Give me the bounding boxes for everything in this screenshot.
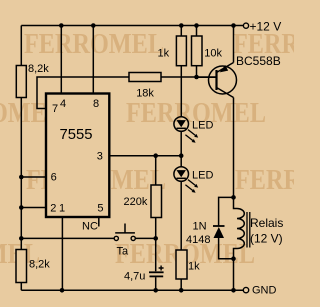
wire pin3 node down to 220k (155, 156, 157, 185)
watermark row2 (0, 97, 266, 129)
wire Ta node to capacitor and ground (155, 238, 157, 290)
svg-text:1N: 1N (193, 221, 207, 233)
transistor Q1 BC558B (197, 63, 237, 98)
wire pin7 to 18k (37, 77, 129, 109)
junction dot Ta node (153, 236, 158, 241)
svg-text:4,7u: 4,7u (124, 271, 145, 283)
wire pin3 output (110, 155, 181, 157)
wire Ta to 220k node (135, 237, 155, 239)
relay K1 coil (234, 197, 284, 290)
pushbutton Ta (114, 224, 135, 258)
junction dots bottom rail (60, 288, 236, 293)
svg-text:NC: NC (82, 221, 98, 233)
wire pin5 NC stub (98, 218, 100, 227)
resistor R6 1k lower (176, 250, 200, 279)
svg-text:2: 2 (50, 203, 56, 215)
svg-text:4: 4 (60, 98, 66, 110)
wire pin4 to +12V rail (60, 26, 62, 94)
svg-text:18k: 18k (136, 88, 154, 100)
resistor R2 8,2k lower (16, 250, 50, 283)
junction dots left rail (19, 175, 24, 241)
svg-text:1k: 1k (158, 48, 170, 60)
junction dot base node (194, 75, 199, 80)
watermark row1 (24, 28, 320, 60)
wire top +12V rail (21, 25, 243, 27)
watermark row4 (0, 238, 255, 270)
wire pin6 to left rail (21, 176, 46, 178)
svg-text:1k: 1k (188, 261, 200, 273)
wire LED1 to LED2 (180, 131, 182, 166)
junction dots top rail (59, 23, 236, 28)
svg-text:LED: LED (192, 120, 213, 132)
IC U1 7555 (46, 94, 109, 218)
svg-text:BC558B: BC558B (236, 54, 281, 68)
svg-text:1: 1 (59, 203, 65, 215)
LED D2 (174, 167, 198, 193)
terminal +12 V (243, 20, 281, 34)
svg-text:7555: 7555 (60, 127, 93, 143)
svg-text:5: 5 (97, 203, 103, 215)
terminal GND (243, 285, 276, 297)
svg-text:8,2k: 8,2k (29, 259, 50, 271)
wire bottom GND rail (21, 289, 243, 291)
junction dots pin3 output node (153, 153, 183, 158)
resistor R1 8,2k upper (16, 63, 49, 98)
resistor R3 18k (129, 73, 161, 82)
svg-text:+12 V: +12 V (250, 20, 282, 34)
watermark row3 (26, 164, 320, 196)
wire 18k to base node (161, 76, 217, 78)
resistor R4 1k (176, 36, 186, 66)
svg-text:7: 7 (52, 103, 58, 115)
junction dots relay nodes (231, 195, 236, 261)
svg-text:8: 8 (93, 98, 99, 110)
svg-text:(12 V): (12 V) (250, 232, 283, 246)
wire emitter to +12V rail (233, 26, 235, 63)
resistor R5 10k (192, 36, 203, 66)
svg-text:GND: GND (252, 285, 277, 297)
wire collector down to relay (233, 98, 235, 198)
svg-text:6: 6 (51, 172, 57, 184)
wire 220k to Ta node (155, 218, 157, 239)
capacitor C1 4,7u (124, 266, 164, 283)
wire pin8 to +12V rail (92, 26, 94, 94)
wire left rail (20, 26, 22, 291)
svg-text:8,2k: 8,2k (28, 63, 49, 75)
svg-text:LED: LED (192, 170, 213, 182)
diode D3 1N4148 (186, 197, 234, 258)
LED D1 (174, 117, 198, 143)
svg-text:FERROMEL: FERROMEL (235, 164, 294, 196)
resistor R7 220k (124, 185, 162, 218)
svg-text:Relais: Relais (250, 216, 283, 230)
svg-text:10k: 10k (204, 48, 222, 60)
wire LED2 to 1k (180, 181, 182, 250)
svg-text:220k: 220k (124, 196, 148, 208)
wire 1k top leads (180, 26, 182, 118)
wire 10k leads (196, 26, 198, 78)
svg-text:3: 3 (97, 151, 103, 163)
wire pin2 to left rail (21, 207, 46, 209)
svg-text:4148: 4148 (186, 234, 210, 246)
wire 1k to ground rail (180, 279, 182, 290)
svg-text:Ta: Ta (117, 246, 130, 258)
wire pin1 to ground rail (61, 218, 63, 290)
wire left rail to Ta (21, 237, 114, 239)
